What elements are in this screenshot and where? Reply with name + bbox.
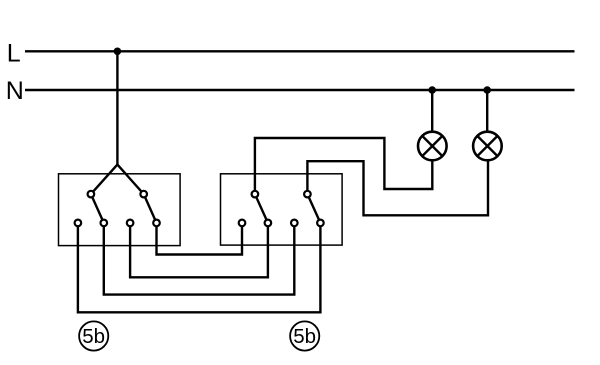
pivot circle S1a xyxy=(88,191,95,198)
wire Y branch right xyxy=(117,165,143,195)
wire Y branch left xyxy=(91,165,118,195)
wire S2 pivot-a to lamp E1 xyxy=(255,138,432,194)
terminal S2 t4 xyxy=(317,220,324,227)
switch box S1 xyxy=(59,174,181,246)
wire U3: S1 terminal2 to S2 terminal3 xyxy=(104,223,294,295)
wire lamp E2 top stem xyxy=(486,90,488,132)
svg-text:5b: 5b xyxy=(293,325,316,348)
terminal S1 t2 xyxy=(101,220,108,227)
svg-text:N: N xyxy=(6,77,24,105)
terminal S1 t1 xyxy=(75,220,82,227)
wire L line xyxy=(25,50,575,52)
wire N line xyxy=(25,89,575,91)
terminal S2 t2 xyxy=(265,220,272,227)
node junction on L xyxy=(114,48,122,56)
wire U1: S1 terminal4 to S2 terminal1 xyxy=(157,223,243,255)
lamp E2 xyxy=(473,132,502,161)
wire lamp E1 top stem xyxy=(431,90,433,132)
svg-text:5b: 5b xyxy=(82,325,105,348)
switch lever S2b xyxy=(307,194,320,223)
wire feed drop from L to switch S1 xyxy=(116,51,118,164)
terminal S2 t3 xyxy=(291,220,298,227)
switch lever S1a xyxy=(91,194,104,223)
svg-text:L: L xyxy=(7,39,21,67)
terminal S1 t3 xyxy=(127,220,134,227)
switch lever S2a xyxy=(255,194,268,223)
terminal S1 t4 xyxy=(153,220,160,227)
node junction N to E2 xyxy=(483,86,491,94)
wire S2 pivot-b to lamp E2 xyxy=(307,160,488,215)
pivot circle S1b xyxy=(140,191,147,198)
terminal S2 t1 xyxy=(239,220,246,227)
pivot circle S2a xyxy=(252,191,259,198)
switch box S2 xyxy=(221,174,343,245)
lamp E1 xyxy=(418,132,447,161)
label 5b left xyxy=(79,321,108,350)
label 5b right xyxy=(290,321,319,350)
switch lever S1b xyxy=(144,194,157,223)
node junction N to E1 xyxy=(428,86,436,94)
wire corresponding U4: S1 terminal1 to S2 terminal4 xyxy=(78,223,321,312)
wire U2: S1 terminal3 to S2 terminal2 xyxy=(130,223,268,277)
pivot circle S2b xyxy=(304,191,311,198)
